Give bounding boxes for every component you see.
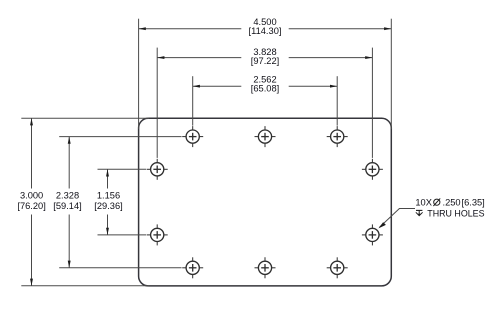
- extension line: plate right edge up to 4.500 dim: [390, 19, 392, 129]
- arrowhead right 2.562: [330, 85, 337, 88]
- arrowhead right 4.500: [384, 27, 391, 30]
- svg-text:10X: 10X: [415, 198, 432, 208]
- dimension line 3.000 vertical: [31, 118, 33, 188]
- arrowhead left 3.828: [157, 56, 164, 59]
- arrowhead bottom 2.328: [68, 261, 71, 268]
- extension line: plate top edge to left: [21, 117, 149, 119]
- svg-text:[6.35]: [6.35]: [462, 198, 485, 208]
- plate outline: [139, 118, 392, 286]
- hole H8: [182, 257, 203, 278]
- extension line: lower middle holes to left: [98, 234, 147, 236]
- note text line 2: depth symbol THRU HOLES: [416, 208, 485, 218]
- arrowhead bottom 1.156: [106, 228, 109, 235]
- dimension line 1.156 vertical: [107, 169, 109, 188]
- depth symbol: [416, 209, 422, 211]
- arrowhead left 2.562: [193, 85, 200, 88]
- extension line: left hole column up to 3.828 dim: [156, 48, 158, 158]
- extension line: right hole column up to 3.828 dim: [371, 48, 373, 158]
- svg-text:2.328: 2.328: [56, 191, 79, 201]
- hole H4: [147, 159, 168, 180]
- arrowhead left 4.500: [139, 27, 146, 30]
- svg-text:THRU HOLES: THRU HOLES: [427, 208, 484, 218]
- leader arrowhead: [378, 222, 386, 228]
- arrowhead bottom 3.000: [30, 279, 33, 286]
- dimension line 3.828: [157, 57, 241, 59]
- svg-text:[29.36]: [29.36]: [94, 201, 122, 211]
- svg-text:1.156: 1.156: [97, 191, 120, 201]
- extension line: upper middle holes to left: [98, 168, 147, 170]
- svg-text:3.000: 3.000: [20, 191, 43, 201]
- svg-text:[76.20]: [76.20]: [17, 201, 45, 211]
- hole H3: [327, 126, 348, 147]
- dimension line 2.328 vertical: [68, 137, 70, 189]
- arrowhead top 1.156: [106, 169, 109, 176]
- extension line: plate left edge up to 4.500 dim: [138, 19, 140, 129]
- hole H10: [327, 257, 348, 278]
- arrowhead top 2.328: [68, 137, 71, 144]
- hole H9: [255, 257, 276, 278]
- svg-text:.250: .250: [443, 198, 461, 208]
- extension line: top-left hole up to 2.562 dim: [192, 76, 194, 125]
- dimension line 2.562: [193, 85, 242, 87]
- note text line 1: 10X dia .250 [6.35]: [415, 198, 484, 208]
- leader line to note: [380, 209, 416, 228]
- svg-text:[65.08]: [65.08]: [251, 84, 279, 94]
- hole H7: [362, 224, 383, 245]
- arrowhead top 3.000: [30, 118, 33, 125]
- svg-text:[114.30]: [114.30]: [249, 26, 282, 36]
- extension line: bottom hole row to left: [59, 267, 181, 269]
- diameter symbol: [434, 199, 440, 205]
- arrowhead right 3.828: [365, 56, 372, 59]
- hole H1: [182, 126, 203, 147]
- dimension line 4.500: [139, 28, 242, 30]
- svg-text:[59.14]: [59.14]: [53, 201, 81, 211]
- extension line: top-right hole up to 2.562 dim: [336, 76, 338, 125]
- extension line: plate bottom edge to left: [21, 285, 149, 287]
- hole H2: [255, 126, 276, 147]
- extension line: top hole row to left: [59, 136, 181, 138]
- hole H5: [362, 159, 383, 180]
- hole H6: [147, 224, 168, 245]
- svg-text:[97.22]: [97.22]: [251, 56, 279, 66]
